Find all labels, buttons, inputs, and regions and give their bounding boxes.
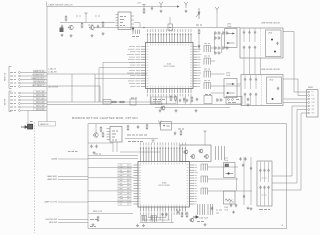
- wire pin drops to band: [150, 97, 191, 105]
- capacitor C37: [277, 87, 279, 91]
- svg-text:MIRROR OPTION CHAPTER MDR, OPT: MIRROR OPTION CHAPTER MDR, OPTION: [72, 116, 138, 120]
- IC06 bottom pin labels: [141, 212, 186, 215]
- relay LY02 box: [224, 79, 237, 98]
- power VCC mid: [152, 140, 155, 143]
- resistor array RA04: [204, 71, 211, 78]
- diode pair D10: [215, 46, 221, 49]
- transistor Q25: [204, 154, 209, 159]
- IC01 top pin labels: [148, 29, 192, 32]
- transistor Q01: [68, 25, 73, 30]
- wire MDR row: [88, 213, 133, 215]
- wire IC01 pin12 to left: [95, 77, 141, 79]
- wire branch at x95: [94, 74, 96, 102]
- IC01 top pin field: [147, 33, 192, 43]
- resistor array RA02: [204, 46, 211, 53]
- wire IC06 pin row to border 4: [88, 200, 134, 202]
- resistor R45: [146, 124, 148, 130]
- svg-text:TMP87CM38N: TMP87CM38N: [163, 66, 176, 68]
- svg-text:SW01: SW01: [308, 87, 313, 89]
- ground under Q01: [70, 34, 73, 37]
- capacitor C59: [235, 204, 237, 208]
- label IC02: [112, 130, 118, 132]
- driver box DRV1: [180, 145, 211, 162]
- wire RA12 out: [208, 178, 238, 180]
- wire rail 3 below IC06: [140, 222, 175, 224]
- label R46: [178, 128, 184, 130]
- wire RA03 to diode column: [211, 60, 215, 62]
- wire left feed row1: [88, 155, 138, 157]
- transistor Q21: [93, 132, 98, 137]
- capacitor C07: [151, 7, 153, 11]
- ground cluster: [204, 223, 207, 226]
- capacitor C35: [255, 78, 257, 82]
- wire RA02 to diode column: [211, 47, 215, 49]
- component cluster box: [204, 96, 212, 104]
- label RA04: [204, 68, 210, 70]
- wire SW01 pin7 to mirror block: [301, 112, 307, 114]
- node POWER KEY: [10, 75, 16, 77]
- diode D07: [183, 97, 185, 103]
- label RA05: [204, 80, 210, 82]
- resistor array RA15: [151, 216, 156, 222]
- filter box FL03: [257, 161, 272, 206]
- component box K1: [103, 100, 111, 105]
- capacitor C44: [196, 98, 198, 102]
- label IC03: [120, 16, 126, 18]
- svg-text:MDR-P ON: MDR-P ON: [93, 211, 103, 213]
- wire bottom block left border: [87, 124, 89, 229]
- relay LY03 box: [224, 163, 236, 178]
- wire main top bus: [93, 27, 240, 29]
- IC01 right pins: [193, 47, 198, 87]
- ground band 1: [159, 109, 162, 112]
- op-amp IC06 body: [138, 162, 190, 208]
- label corner ticks: [90, 226, 96, 228]
- line filter LF01 box: [240, 28, 283, 58]
- wire LF02 out to SW01 pin3: [284, 98, 308, 100]
- svg-text:LAMP DR: LAMP DR: [40, 123, 49, 126]
- ground x251: [250, 207, 253, 210]
- wire AN3 drop: [216, 13, 218, 28]
- node REMOTE OUT: [10, 79, 16, 81]
- pin SW01-4: [308, 102, 310, 104]
- svg-text:IC01: IC01: [167, 64, 172, 66]
- node KEY-4 IN: [10, 103, 16, 105]
- wire band row1: [150, 104, 242, 106]
- wire LY03 link down: [236, 178, 238, 192]
- power +5V symbol: [143, 5, 146, 8]
- IC06 left pin label boxes: [118, 164, 131, 167]
- transistor Q11: [271, 39, 273, 41]
- group box under IC01: [151, 97, 176, 104]
- label R33: [131, 97, 137, 99]
- ground band 2: [175, 109, 178, 112]
- wire IC02 drop 1: [112, 142, 114, 152]
- ground AN2: [185, 10, 188, 13]
- label above jack: [30, 121, 33, 123]
- capacitor C23: [248, 31, 250, 35]
- resistor R32: [119, 101, 125, 103]
- IC03 right pins: [131, 16, 134, 24]
- wire key matrix row 1: [47, 101, 160, 103]
- capacitor C54: [174, 132, 176, 136]
- IC01 left pins: [141, 47, 146, 87]
- jack J01 body: [28, 124, 33, 129]
- wire bottom block bottom border: [88, 228, 287, 230]
- line filter LF02 box: [241, 75, 283, 106]
- inductor cluster bars: [198, 204, 205, 215]
- wire bottom block top border: [88, 123, 287, 125]
- resistor R42: [102, 132, 104, 138]
- label box LAMP node: [39, 122, 56, 127]
- relay LY01 contact 2: [227, 42, 235, 44]
- IC06 bottom pins: [141, 207, 186, 212]
- capacitor C25: [254, 31, 256, 35]
- label R03: [76, 15, 81, 17]
- wire band row2: [155, 107, 230, 109]
- label C57: [176, 209, 181, 211]
- reset IC03 box: [118, 12, 131, 30]
- inductor LF01 sub-box: [266, 30, 282, 57]
- capacitor C33: [249, 78, 251, 82]
- wire IC06 pin row to border 2: [88, 177, 134, 179]
- label in group box: [153, 99, 165, 101]
- arrow at border end: [177, 5, 180, 8]
- diode D06: [217, 98, 223, 101]
- diode D12: [198, 44, 200, 50]
- capacitor C36: [255, 93, 257, 97]
- label left feed: [95, 153, 101, 155]
- wire top-left entry stub: [46, 2, 48, 7]
- wire RA05 to filter: [211, 85, 240, 87]
- capacitor pair C56: [161, 213, 163, 217]
- label CN02: [236, 99, 239, 101]
- transistor Q12: [274, 51, 276, 53]
- wire bottom block right border: [286, 124, 288, 229]
- relay LY02 contact 2: [226, 92, 235, 94]
- ground bottom-left: [92, 223, 95, 226]
- capacitor C31: [244, 78, 246, 82]
- node KEY-5 IN: [10, 106, 16, 108]
- IC01 left pin labels: [127, 47, 140, 87]
- wire IC06 pin drops: [143, 215, 171, 223]
- wire left border of lamp driver section: [46, 7, 48, 123]
- resistor bars extra: [208, 204, 213, 215]
- capacitor C27: [276, 42, 278, 46]
- svg-text:LIGHTER SW: LIGHTER SW: [45, 219, 57, 221]
- wire dashed option boundary: [33, 122, 35, 233]
- diode pair D11: [215, 51, 221, 54]
- IC01 bottom pins: [148, 89, 192, 94]
- electrolytic cap C02: [60, 28, 64, 33]
- antenna symbol AN4: [158, 121, 162, 127]
- label RA01: [132, 36, 139, 38]
- wire LF02 out to SW01 pin4: [284, 102, 308, 104]
- transistor Q26: [189, 218, 194, 223]
- power VCC mid2: [204, 131, 207, 134]
- transistor Q23: [190, 154, 195, 159]
- capacitor C42: [186, 99, 188, 103]
- capacitor C63b: [243, 195, 245, 199]
- svg-text:IC06: IC06: [162, 183, 167, 185]
- ground C45: [247, 103, 250, 106]
- svg-text:LF02: LF02: [269, 80, 273, 82]
- capacitor C34: [249, 93, 251, 97]
- resistor array RA13: [201, 188, 208, 195]
- wire relay2 to filter: [237, 83, 241, 85]
- label GND rows: [90, 219, 98, 221]
- diode pair D08b: [223, 31, 229, 34]
- ground under R04: [102, 32, 105, 35]
- wire bus drop: [139, 23, 141, 28]
- wire SW01 pin5 to mirror block: [292, 105, 307, 107]
- wire inner feed: [88, 142, 113, 144]
- wire RA13 out: [208, 190, 252, 192]
- svg-text:KEY IN: KEY IN: [5, 98, 7, 105]
- wire top border of lamp driver section: [47, 6, 177, 8]
- capacitor C67: [263, 186, 265, 190]
- transistor Q22: [183, 150, 188, 155]
- capacitor C26: [254, 46, 256, 50]
- capacitor C45: [247, 98, 249, 102]
- wire vertical x244: [243, 157, 245, 205]
- ground C58: [232, 211, 235, 214]
- wire L01 up: [169, 17, 171, 24]
- wire dashed divider: [260, 29, 262, 58]
- ground under C51: [93, 151, 96, 154]
- svg-text:LA-MB: LA-MB: [51, 158, 58, 161]
- capacitor C41: [179, 99, 181, 103]
- svg-text:LAMP DRIVER CIRCUIT: LAMP DRIVER CIRCUIT: [49, 4, 74, 7]
- resistor array RA11: [201, 164, 208, 171]
- antenna symbol AN1: [159, 2, 163, 8]
- op-amp IC01 body: [146, 43, 194, 89]
- wire rail 2 below IC06: [143, 219, 170, 221]
- IC06 right pins: [190, 165, 195, 204]
- connector SW01: [307, 90, 319, 118]
- svg-text:SW: SW: [312, 109, 315, 111]
- pin SW01-2: [308, 95, 310, 97]
- svg-text:L-TAL-TX: L-TAL-TX: [48, 68, 57, 71]
- wire vcc drop: [85, 16, 87, 23]
- junction dot bus2: [169, 27, 170, 28]
- diode pair D09: [215, 36, 221, 39]
- wire LF01 to LF02 link 2: [249, 58, 251, 75]
- IC06 top pin bus: [120, 151, 160, 153]
- wire diode col vertical 2: [221, 33, 223, 53]
- pin CN02-2: [232, 99, 234, 101]
- wire IC06 pin row to border 1: [88, 167, 134, 169]
- IC06 top pins: [140, 147, 186, 162]
- pin SW01-1: [308, 91, 310, 93]
- relay LY01 box: [225, 29, 238, 48]
- label cap values: [68, 151, 78, 153]
- diode D05 with arrow: [196, 8, 200, 19]
- resistor R44: [127, 125, 129, 131]
- pin CN02-1: [228, 99, 230, 101]
- wire IC01 pin8 to left: [99, 67, 141, 69]
- label FL03 ticks: [262, 177, 267, 179]
- svg-text:1.5W 10uH: 1.5W 10uH: [199, 218, 209, 220]
- svg-text:L-CAL-RX: L-CAL-RX: [48, 71, 57, 74]
- resistor R02: [65, 15, 67, 21]
- wire SW01 pin6 to mirror block: [297, 109, 307, 111]
- wire RA04 to relay: [211, 73, 225, 75]
- capacitor C51: [90, 145, 92, 149]
- label RA02: [204, 43, 210, 45]
- node KEY-1 IN: [10, 92, 16, 94]
- pin SW01-3: [308, 98, 310, 100]
- IC06 left pins: [134, 165, 139, 204]
- wire IC02 drop 2: [116, 142, 118, 152]
- IC01 right pin labels: [198, 47, 201, 87]
- node KEY/MODE: [10, 82, 16, 84]
- wire rail 1 below IC06: [148, 217, 166, 219]
- reset IC02 box: [110, 127, 122, 143]
- IC03 left pins: [116, 15, 119, 26]
- resistor array RA05: [204, 83, 211, 90]
- capacitor C63: [259, 169, 261, 173]
- jack arrow bottom: [193, 216, 198, 218]
- resistor R52: [186, 212, 188, 218]
- label under bars: [197, 221, 204, 223]
- label R04: [95, 15, 100, 17]
- ground C61: [242, 164, 245, 167]
- wire IC01 pin6 to left: [103, 61, 141, 63]
- label band row2: [128, 141, 143, 143]
- wire cluster feed: [60, 22, 115, 24]
- transistor Q02: [89, 25, 94, 30]
- resistor R31: [111, 101, 117, 103]
- diode pair D08: [215, 31, 221, 34]
- pin SW01-6: [308, 109, 310, 111]
- resistor R28: [198, 29, 200, 35]
- capacitor C66: [259, 186, 261, 190]
- label bars extra: [216, 209, 222, 211]
- pin SW01-5: [308, 105, 310, 107]
- wire vcc drop: [204, 134, 206, 145]
- transistor Q24: [198, 149, 203, 154]
- svg-text:MDR SW: MDR SW: [49, 222, 57, 224]
- wire bus L-TAL to IC01: [47, 73, 147, 75]
- resistor R36: [170, 95, 172, 101]
- capacitor C04: [97, 25, 99, 29]
- svg-text:LINE FILTER CIRCUIT: LINE FILTER CIRCUIT: [261, 69, 281, 71]
- ground band 3: [195, 109, 198, 112]
- resistor R41: [100, 126, 102, 132]
- label Q05: [158, 103, 163, 105]
- pin SW01-7: [308, 112, 310, 114]
- node REMOTE IN: [10, 72, 16, 74]
- resistor R09: [143, 8, 145, 14]
- crystal dot: [163, 125, 165, 127]
- wire IC03 to bus: [134, 22, 140, 24]
- IC01 bottom pin labels: [148, 94, 192, 97]
- resistor R34: [191, 96, 193, 102]
- label cluster mid: [88, 24, 93, 26]
- capacitor C62: [244, 157, 246, 161]
- wire LF01 to LF02 link 1: [243, 58, 245, 75]
- wire IC06 pin row to border 3: [88, 190, 134, 192]
- resistor R46: [180, 130, 182, 136]
- label K1: [105, 101, 110, 103]
- label RA03: [204, 55, 210, 57]
- relay LY04 zigzag: [225, 199, 232, 202]
- wire to relay2: [211, 92, 224, 94]
- svg-text:REMOTE: REMOTE: [5, 72, 7, 81]
- svg-text:LF01: LF01: [268, 33, 272, 35]
- wire led drive drop: [99, 86, 101, 102]
- connector bracket REMOTE group: [9, 67, 12, 89]
- wire diode col vertical 1: [214, 33, 216, 53]
- resistor array RA03: [204, 58, 211, 65]
- ground under Q02: [91, 34, 94, 37]
- capacitor C21: [243, 31, 245, 35]
- ground under C03: [61, 34, 64, 37]
- capacitor C22: [243, 46, 245, 50]
- diode D03: [132, 27, 134, 32]
- resistor array RA12: [201, 176, 208, 183]
- node KEY-2 IN: [10, 96, 16, 98]
- power VCC cluster: [85, 13, 88, 16]
- resistor R04: [102, 21, 104, 27]
- wire led drive: [47, 85, 100, 87]
- transistor Q13: [272, 98, 274, 100]
- capacitor C58: [230, 204, 232, 208]
- relay LY03 contact: [226, 173, 234, 175]
- svg-text:SW: SW: [312, 113, 315, 115]
- wire branch at x72: [71, 74, 73, 102]
- ground AN1: [160, 10, 163, 13]
- relay LY04 box: [224, 191, 236, 204]
- relay LY02 contact 1: [226, 83, 235, 85]
- svg-text:SW: SW: [312, 106, 315, 108]
- inductor LF02 sub-box: [267, 77, 282, 104]
- wire vertical x251: [250, 157, 252, 205]
- wire jack to key rows: [27, 111, 29, 125]
- label under FL03: [259, 209, 270, 211]
- capacitor C53: [137, 125, 139, 129]
- ground RA14: [142, 224, 145, 227]
- svg-text:LAMP CUT TM: LAMP CUT TM: [44, 201, 57, 204]
- IC06 right pin labels: [195, 165, 198, 204]
- ground left rail: [136, 224, 139, 227]
- svg-text:P-1: P-1: [312, 92, 315, 94]
- label R28: [196, 24, 202, 26]
- node KEY-3 IN: [10, 99, 16, 101]
- capacitor C64: [263, 169, 265, 173]
- svg-text:LAMP-SW2: LAMP-SW2: [47, 178, 57, 181]
- connector bracket KEY group: [9, 91, 12, 112]
- svg-text:LINE FILTER CIRCUIT: LINE FILTER CIRCUIT: [261, 23, 281, 25]
- resistor R53: [97, 216, 99, 222]
- relay LY01 contact 1: [227, 33, 235, 35]
- capacitor C64b: [250, 167, 252, 171]
- wire dashed divider 2: [261, 75, 263, 105]
- resistor array RA14: [141, 216, 146, 222]
- connector CN02 box: [226, 97, 242, 105]
- IC02 left pins: [107, 129, 111, 140]
- component L01: [168, 24, 173, 31]
- component R33 box: [130, 99, 136, 105]
- capacitor C24: [248, 46, 250, 50]
- antenna symbol AN3: [215, 7, 219, 13]
- jack J01 arrow: [21, 126, 27, 129]
- resistor bars right of driver: [216, 146, 225, 160]
- svg-text:P-2: P-2: [312, 95, 315, 97]
- wire key matrix row 2: [47, 104, 162, 106]
- IC06 top pin labels: [141, 143, 186, 146]
